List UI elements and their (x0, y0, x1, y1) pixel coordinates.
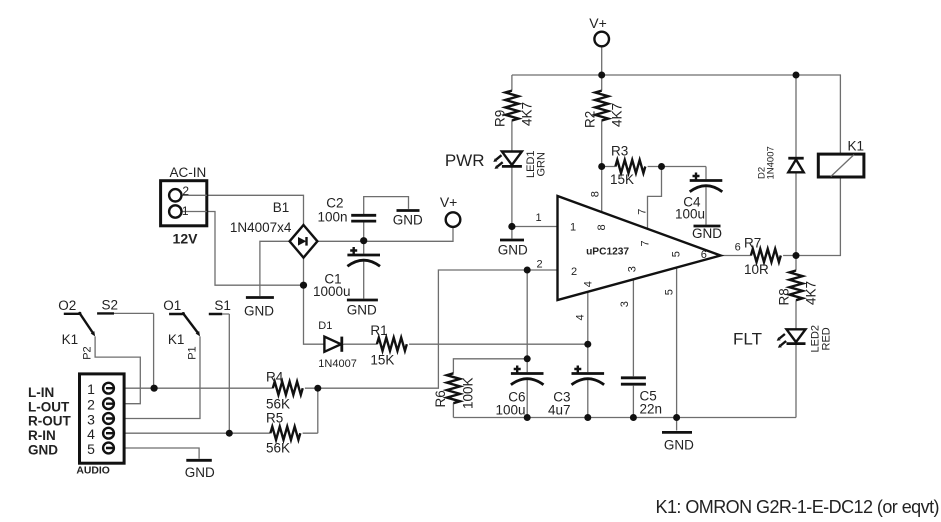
svg-text:4u7: 4u7 (548, 403, 571, 418)
svg-text:R3: R3 (611, 144, 628, 159)
svg-text:R4: R4 (266, 370, 284, 385)
svg-text:4: 4 (87, 426, 95, 442)
svg-text:P1: P1 (187, 346, 199, 359)
svg-text:6: 6 (735, 242, 741, 254)
svg-text:GND: GND (185, 465, 215, 480)
svg-text:R6: R6 (433, 390, 448, 407)
svg-text:5: 5 (87, 441, 95, 457)
svg-text:7: 7 (640, 240, 652, 246)
svg-text:1: 1 (182, 204, 189, 218)
svg-text:5: 5 (670, 251, 682, 257)
svg-text:4K7: 4K7 (520, 102, 535, 126)
svg-text:2: 2 (536, 259, 542, 271)
svg-text:2: 2 (571, 266, 577, 278)
svg-text:R2: R2 (583, 111, 598, 128)
svg-text:GND: GND (393, 213, 423, 228)
svg-text:L-OUT: L-OUT (28, 399, 70, 414)
svg-text:4K7: 4K7 (804, 281, 819, 305)
svg-text:8: 8 (590, 191, 602, 197)
svg-text:R9: R9 (493, 110, 508, 127)
svg-text:B1: B1 (273, 200, 290, 215)
svg-text:R8: R8 (777, 288, 792, 305)
svg-text:R7: R7 (744, 236, 761, 251)
svg-text:R1: R1 (370, 323, 387, 338)
svg-text:K1: K1 (62, 332, 79, 347)
svg-text:100n: 100n (317, 210, 347, 225)
svg-text:V+: V+ (440, 194, 458, 210)
svg-text:1: 1 (87, 381, 95, 397)
svg-text:R-OUT: R-OUT (28, 414, 71, 429)
svg-text:PWR: PWR (445, 151, 485, 170)
svg-text:3: 3 (619, 301, 631, 307)
svg-text:GND: GND (498, 243, 528, 258)
svg-text:FLT: FLT (733, 330, 762, 349)
svg-text:L-IN: L-IN (28, 385, 54, 400)
svg-text:S2: S2 (101, 298, 118, 313)
svg-text:7: 7 (637, 209, 649, 215)
svg-text:1: 1 (536, 212, 542, 224)
svg-text:1N4007: 1N4007 (318, 358, 357, 370)
svg-text:O2: O2 (58, 298, 76, 313)
svg-text:AC-IN: AC-IN (170, 165, 207, 180)
svg-text:12V: 12V (173, 231, 199, 247)
svg-text:100u: 100u (675, 207, 705, 222)
svg-text:1N4007: 1N4007 (766, 146, 777, 179)
svg-text:6: 6 (701, 249, 707, 261)
svg-text:3: 3 (627, 266, 639, 272)
svg-text:5: 5 (664, 289, 676, 295)
svg-text:GND: GND (244, 304, 274, 319)
svg-text:GND: GND (28, 442, 58, 457)
svg-text:8: 8 (596, 224, 608, 230)
svg-text:O1: O1 (163, 298, 181, 313)
svg-text:4K7: 4K7 (610, 103, 625, 127)
svg-text:GND: GND (692, 226, 722, 241)
svg-text:C2: C2 (326, 195, 343, 210)
svg-text:2: 2 (182, 184, 189, 198)
svg-text:RED: RED (821, 327, 833, 350)
svg-text:3: 3 (87, 411, 95, 427)
svg-text:1: 1 (570, 221, 576, 233)
svg-text:56K: 56K (266, 441, 290, 456)
svg-text:15K: 15K (370, 353, 394, 368)
svg-text:1000u: 1000u (313, 284, 351, 299)
svg-text:S1: S1 (214, 298, 231, 313)
svg-text:GND: GND (664, 438, 694, 453)
svg-text:56K: 56K (266, 397, 290, 412)
svg-text:K1: K1 (168, 332, 185, 347)
svg-text:P2: P2 (82, 346, 94, 359)
svg-text:4: 4 (575, 314, 587, 320)
svg-text:100K: 100K (461, 377, 476, 409)
svg-text:100u: 100u (495, 403, 525, 418)
svg-text:4: 4 (583, 281, 595, 287)
svg-text:AUDIO: AUDIO (76, 466, 109, 477)
svg-text:uPC1237: uPC1237 (586, 247, 629, 258)
svg-text:15K: 15K (610, 172, 634, 187)
svg-text:GRN: GRN (536, 152, 548, 177)
svg-text:V+: V+ (589, 15, 607, 31)
svg-text:R-IN: R-IN (28, 428, 56, 443)
svg-text:22n: 22n (640, 402, 663, 417)
svg-text:R5: R5 (266, 411, 283, 426)
svg-text:D1: D1 (318, 320, 332, 332)
svg-text:1N4007x4: 1N4007x4 (230, 220, 292, 235)
svg-text:2: 2 (87, 397, 95, 413)
svg-text:10R: 10R (744, 262, 769, 277)
svg-text:K1: OMRON G2R-1-E-DC12 (or eqv: K1: OMRON G2R-1-E-DC12 (or eqvt) (656, 497, 939, 517)
svg-text:K1: K1 (848, 139, 865, 154)
svg-text:GND: GND (347, 303, 377, 318)
